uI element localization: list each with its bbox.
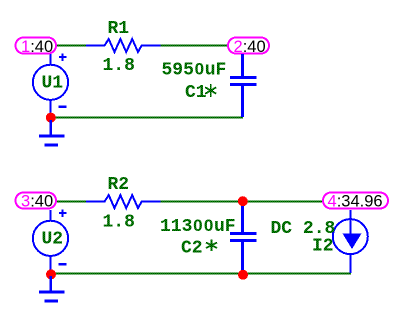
junction dot: C2 top <box>238 196 248 206</box>
wire: top circuit ground rail <box>50 116 243 118</box>
capacitor C2 <box>230 202 257 273</box>
wire: node1 to R1 left lead <box>56 45 87 47</box>
junction dot: C2 bottom <box>238 270 248 280</box>
svg-text:R2: R2 <box>108 175 130 195</box>
svg-text:C2: C2 <box>181 239 203 259</box>
svg-text:4:34.96: 4:34.96 <box>328 193 383 211</box>
resistor R1 <box>86 39 161 52</box>
svg-text:1:40: 1:40 <box>21 38 53 56</box>
capacitor C1 <box>230 54 257 117</box>
wire: node3 to R2 left lead <box>56 201 87 203</box>
wire: bottom circuit ground rail <box>50 273 351 275</box>
svg-text:11300uF: 11300uF <box>160 216 236 237</box>
svg-text:U2: U2 <box>42 229 64 249</box>
current source I2 <box>333 210 368 273</box>
svg-text:1.8: 1.8 <box>103 56 135 76</box>
junction dot: U1 minus / ground (top circuit) <box>46 113 56 123</box>
voltage source U1 <box>33 53 68 117</box>
wire: R2 right lead to node4 (through C2 junction) <box>160 201 323 203</box>
svg-text:U1: U1 <box>42 73 64 93</box>
svg-text:R1: R1 <box>108 19 130 39</box>
ground (bottom circuit) <box>39 276 65 301</box>
svg-text:5950uF: 5950uF <box>162 60 227 81</box>
svg-text:3:40: 3:40 <box>21 193 53 211</box>
node label 1:40 <box>16 38 57 57</box>
wire: R1 right lead to node2 <box>160 45 228 47</box>
node label 4:34.96 <box>323 193 388 211</box>
svg-text:1.8: 1.8 <box>103 213 135 233</box>
svg-text:C1: C1 <box>185 83 207 103</box>
junction dot: U2 minus / ground (bottom circuit) <box>46 269 56 279</box>
resistor R2 <box>86 195 161 208</box>
svg-text:2:40: 2:40 <box>234 38 266 56</box>
svg-text:I2: I2 <box>312 237 334 257</box>
voltage source U2 <box>33 209 68 273</box>
node label 3:40 <box>16 193 57 211</box>
ground (top circuit) <box>39 120 65 145</box>
node label 2:40 <box>228 38 269 57</box>
